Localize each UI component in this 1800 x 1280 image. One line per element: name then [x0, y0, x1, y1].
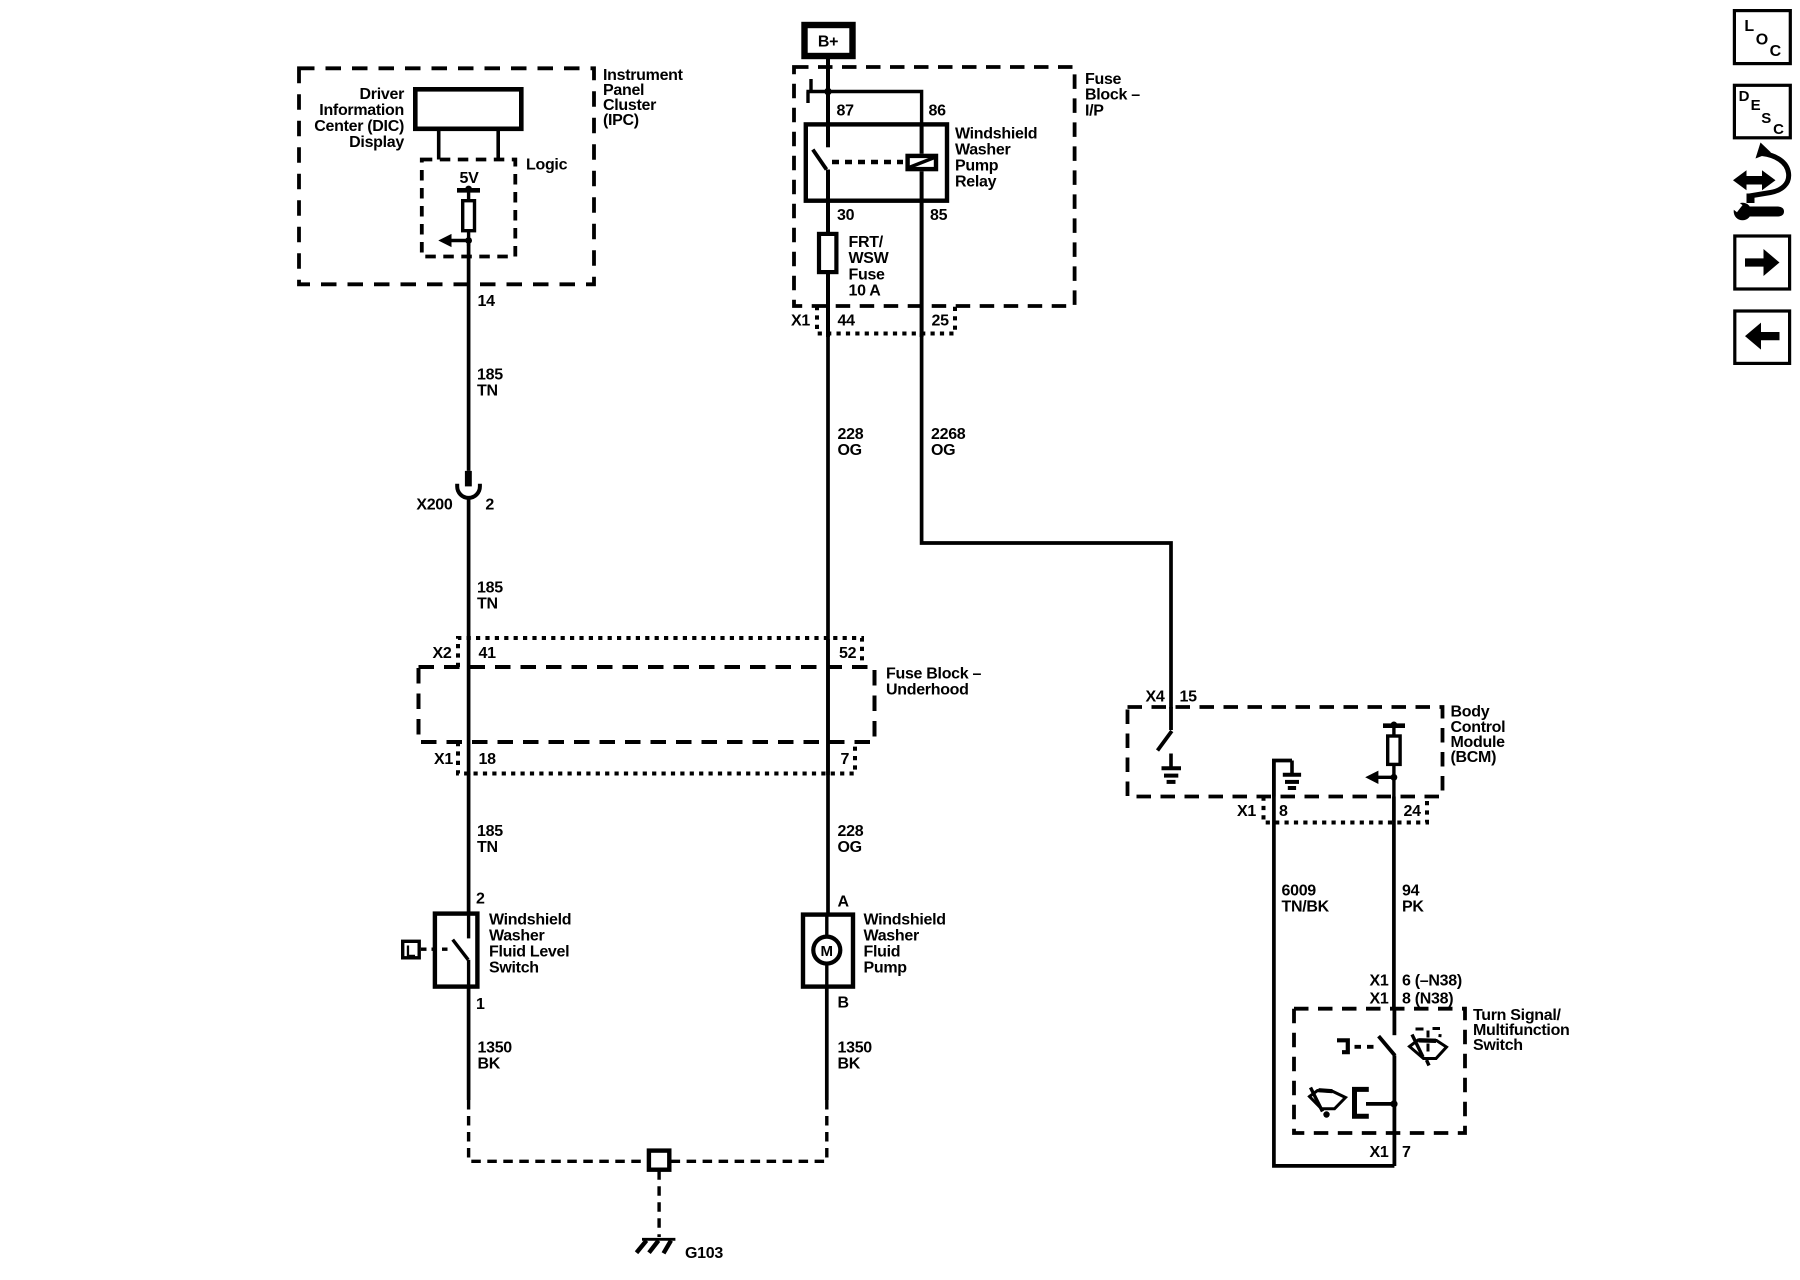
svg-text:228: 228 [838, 426, 864, 443]
svg-text:Windshield: Windshield [955, 126, 1037, 143]
windshield washer fluid pump box [803, 915, 853, 987]
svg-text:185: 185 [477, 580, 503, 597]
svg-text:Pump: Pump [864, 960, 908, 977]
wire: resistor to junction [467, 231, 470, 246]
svg-text:24: 24 [1404, 803, 1422, 820]
svg-text:Relay: Relay [955, 174, 997, 191]
switch lower wire to pin 7 [1393, 1055, 1397, 1166]
back arrow button [1735, 311, 1790, 363]
svg-text:B: B [838, 995, 849, 1012]
relay pin 86/85 wire through coil [920, 124, 924, 153]
svg-text:Fuse: Fuse [849, 267, 886, 284]
svg-text:10 A: 10 A [849, 283, 882, 300]
svg-text:18: 18 [479, 751, 497, 768]
level switch bottom stub [467, 960, 470, 987]
connector X200: female socket [457, 484, 480, 498]
svg-text:OG: OG [931, 442, 955, 459]
svg-text:(IPC): (IPC) [603, 112, 639, 129]
pump motor circle [813, 937, 840, 964]
svg-text:2: 2 [476, 891, 485, 908]
Fuse Block - I/P dashed box [794, 67, 1075, 306]
svg-text:Driver: Driver [360, 86, 405, 103]
diagnostic icon: double arrow, curved arrow, wrench [1728, 143, 1789, 221]
svg-text:Body: Body [1451, 704, 1490, 721]
svg-text:15: 15 [1180, 689, 1198, 706]
svg-text:(BCM): (BCM) [1451, 749, 1497, 766]
dashed link L box to switch [421, 948, 452, 951]
wire: fuse to X1-44 [826, 272, 830, 337]
BCM internal ground (left) [1162, 754, 1182, 782]
wire: resistor to junction [1392, 764, 1395, 796]
svg-text:6009: 6009 [1282, 883, 1317, 900]
svg-text:L: L [1744, 18, 1754, 35]
B+ battery feed box [805, 25, 853, 56]
svg-text:6 (–N38): 6 (–N38) [1402, 973, 1462, 990]
svg-text:Washer: Washer [864, 928, 919, 945]
svg-text:OG: OG [838, 839, 862, 856]
junction node [1390, 1100, 1397, 1107]
svg-text:Fluid Level: Fluid Level [489, 944, 569, 961]
svg-text:G103: G103 [685, 1245, 723, 1262]
svg-text:OG: OG [838, 442, 862, 459]
svg-text:FRT/: FRT/ [849, 234, 884, 251]
svg-text:2: 2 [485, 497, 494, 514]
junction node [1391, 774, 1398, 781]
svg-text:Windshield: Windshield [864, 912, 946, 929]
Instrument Panel Cluster (IPC) dashed box [299, 68, 594, 284]
junction node at B+ [824, 88, 831, 95]
BCM switch blade [1158, 731, 1172, 751]
svg-text:52: 52 [839, 645, 857, 662]
svg-text:S: S [1761, 110, 1771, 127]
svg-text:Washer: Washer [955, 142, 1010, 159]
washer switch blade [1379, 1036, 1395, 1056]
splice box [649, 1151, 669, 1170]
svg-text:Block –: Block – [1085, 87, 1140, 104]
svg-text:87: 87 [837, 102, 855, 119]
connector X1 (BCM) dotted row [1264, 797, 1428, 823]
wire 1350 BK from level switch [467, 987, 471, 1100]
svg-text:PK: PK [1402, 899, 1424, 916]
wire: IPC pin 14 down to X200 [467, 241, 471, 471]
wire: B+ down into fuse block [826, 56, 830, 124]
mechanical link symbol [1337, 1038, 1348, 1054]
svg-text:X1: X1 [1237, 803, 1256, 820]
svg-text:TN: TN [477, 839, 498, 856]
L sensor box [403, 941, 420, 958]
BCM internal ground (pin 8) [1274, 761, 1301, 797]
svg-text:8 (N38): 8 (N38) [1402, 991, 1453, 1008]
forward arrow button [1735, 236, 1790, 289]
svg-text:I/P: I/P [1085, 103, 1104, 120]
windshield washer pump relay box [806, 124, 947, 200]
connector X200: male pin [465, 471, 472, 487]
svg-text:C: C [1773, 121, 1784, 138]
wash contact bracket [1355, 1089, 1369, 1116]
clip symbol at B+ feed [806, 79, 826, 103]
relay pin 30 wire [826, 170, 830, 234]
svg-text:2268: 2268 [931, 426, 966, 443]
svg-text:Display: Display [349, 134, 404, 151]
svg-text:30: 30 [837, 207, 855, 224]
svg-text:X200: X200 [416, 497, 453, 514]
svg-text:TN: TN [477, 596, 498, 613]
svg-text:TN: TN [477, 383, 498, 400]
svg-text:Center (DIC): Center (DIC) [314, 118, 404, 135]
svg-text:O: O [1756, 32, 1768, 49]
svg-text:185: 185 [477, 367, 503, 384]
wipe icon (upper right) [1410, 1029, 1447, 1066]
svg-text:1350: 1350 [838, 1040, 873, 1057]
svg-text:1350: 1350 [478, 1040, 513, 1057]
wire: 52 to 7 inside fuse block [826, 639, 830, 775]
svg-text:14: 14 [478, 293, 496, 310]
svg-text:X1: X1 [1370, 991, 1389, 1008]
svg-text:X1: X1 [1370, 1144, 1389, 1161]
wire 6009 TN/BK [1274, 797, 1395, 1166]
svg-text:41: 41 [479, 645, 497, 662]
svg-text:Switch: Switch [1473, 1037, 1523, 1054]
svg-text:X4: X4 [1146, 689, 1165, 706]
svg-text:5V: 5V [460, 170, 480, 187]
svg-text:1: 1 [476, 996, 485, 1013]
dashed ground wire from pump [672, 1100, 827, 1161]
svg-text:44: 44 [838, 313, 856, 330]
svg-text:8: 8 [1279, 803, 1288, 820]
svg-text:85: 85 [930, 207, 948, 224]
wash icon (lower left) [1310, 1088, 1346, 1118]
wire 228 OG: X1-44 down to pump [826, 334, 830, 915]
svg-text:X1: X1 [791, 313, 810, 330]
BCM pull-up resistor [1388, 736, 1400, 764]
svg-text:7: 7 [1402, 1144, 1411, 1161]
BCM low level switch stub [1169, 707, 1173, 730]
dashed stub to ground [657, 1170, 660, 1237]
Logic dashed box [422, 160, 516, 257]
svg-text:L: L [406, 944, 416, 961]
pump stubs [825, 915, 828, 937]
switch top stub [1393, 1009, 1397, 1035]
windshield washer fluid level switch box [435, 914, 478, 987]
svg-text:B+: B+ [818, 34, 838, 51]
svg-text:A: A [838, 894, 850, 911]
Driver Information Center (DIC) Display box [415, 89, 521, 129]
5V supply bar [457, 188, 480, 193]
resistor in IPC logic [463, 201, 475, 231]
svg-text:Fluid: Fluid [864, 944, 901, 961]
dashed ground wire from level switch [469, 1100, 647, 1161]
relay coil diagonal [909, 158, 935, 168]
svg-text:Fuse: Fuse [1085, 71, 1122, 88]
wire 1350 BK from pump [825, 987, 829, 1100]
Body Control Module dashed box [1128, 707, 1443, 797]
level switch top stub [467, 914, 470, 939]
relay actuator dashed link [832, 160, 903, 164]
wire 2268 OG: X1-25 down, over to BCM [922, 334, 1171, 709]
svg-text:Underhood: Underhood [886, 682, 969, 699]
svg-text:185: 185 [477, 823, 503, 840]
Fuse Block - Underhood dashed box [419, 667, 875, 742]
wire 185 TN: X1-18 down to level switch [467, 774, 471, 914]
svg-text:Fuse Block –: Fuse Block – [886, 666, 982, 683]
wire: B+ junction to relay coil feed [828, 92, 922, 125]
svg-text:Switch: Switch [489, 960, 539, 977]
svg-text:Information: Information [319, 102, 404, 119]
connector X1 (I/P) dotted row [817, 306, 955, 334]
wire: 5V to resistor [467, 190, 470, 201]
Turn Signal/Multifunction Switch dashed box [1294, 1009, 1465, 1133]
connector X2 dotted row [458, 638, 862, 667]
wire: 41 to 18 inside fuse block [467, 639, 471, 775]
svg-text:X1: X1 [1370, 973, 1389, 990]
svg-text:X2: X2 [433, 645, 452, 662]
relay switch blade [813, 150, 827, 170]
svg-text:D: D [1739, 88, 1750, 105]
svg-text:Logic: Logic [526, 157, 568, 174]
svg-text:25: 25 [932, 313, 950, 330]
svg-text:Pump: Pump [955, 158, 999, 175]
level switch blade [453, 940, 469, 960]
LOC button box [1734, 11, 1790, 64]
connector X1 (underhood) dotted row [458, 742, 855, 774]
junction node [465, 237, 472, 244]
BCM pull-up stub [1392, 726, 1395, 736]
svg-text:228: 228 [838, 823, 864, 840]
wash contact wire [1366, 1102, 1394, 1106]
svg-text:BK: BK [838, 1056, 861, 1073]
wire: X200 down to X2-41 [467, 498, 471, 639]
actuator dashed link [1355, 1045, 1379, 1049]
DIC display leg wires [437, 131, 441, 160]
relay pin 87 stub [826, 124, 830, 147]
svg-text:X1: X1 [434, 751, 453, 768]
BCM 12V supply bar [1383, 723, 1405, 728]
DESC button box [1734, 85, 1790, 138]
wire 94 PK [1392, 797, 1396, 1011]
svg-text:TN/BK: TN/BK [1282, 899, 1330, 916]
svg-text:BK: BK [478, 1056, 501, 1073]
svg-text:C: C [1770, 43, 1782, 60]
signal arrow to DIC logic [449, 239, 469, 242]
BCM sense arrow [1376, 776, 1394, 779]
svg-text:WSW: WSW [849, 250, 890, 267]
FRT/WSW fuse [819, 234, 836, 272]
svg-text:7: 7 [841, 751, 850, 768]
svg-text:94: 94 [1402, 883, 1420, 900]
relay coil box [908, 156, 936, 169]
svg-text:M: M [821, 943, 834, 960]
svg-text:Washer: Washer [489, 928, 544, 945]
svg-text:Windshield: Windshield [489, 912, 571, 929]
ground G103 [637, 1239, 676, 1253]
svg-text:86: 86 [929, 102, 947, 119]
svg-text:E: E [1751, 97, 1761, 114]
